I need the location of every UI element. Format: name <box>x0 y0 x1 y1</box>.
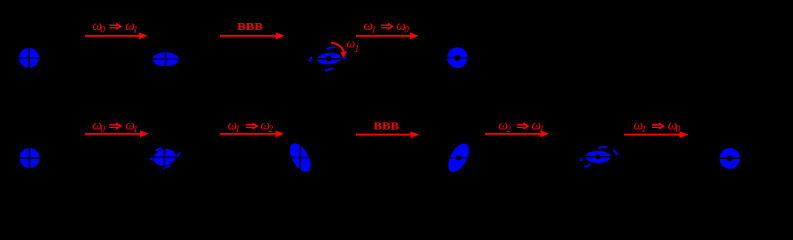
label omega1 => omega0 (top row, last) <box>364 18 410 35</box>
state B3: steeply rotated ellipse with cross <box>285 140 314 175</box>
state B5: rotating ellipse with dashed outline, line and dot <box>581 147 616 167</box>
arrow T-A2 (BBB protocol) <box>220 32 285 39</box>
state T3: rotating ellipse with dashed outline <box>310 47 345 70</box>
arrow B-A1 (omega0 to omega1) <box>85 130 149 137</box>
svg-text:BBB: BBB <box>237 22 263 33</box>
state B2: slightly rotated ellipse with dashes and cross <box>150 147 180 168</box>
state B6: final circle with line and dot <box>717 148 743 169</box>
label omega1 => omega0 (bottom row, last) <box>634 117 681 134</box>
state T2: squeezed horizontal ellipse with cross <box>149 50 183 69</box>
state B4: steep ellipse with line and dot <box>444 140 473 175</box>
label omega2 => omega1 (bottom row) <box>499 117 545 134</box>
arrow B-A4 (omega2 to omega1) <box>485 130 549 137</box>
arrow T-A1 (omega0 to omega1) <box>85 32 148 39</box>
label omega0 => omega1 (top row, first) <box>93 18 138 35</box>
arrow B-A5 (omega1 to omega0) <box>624 131 688 138</box>
arrow B-A3 (BBB protocol) <box>356 131 419 138</box>
rotation arc with arrowhead near T3 <box>331 43 347 59</box>
state T1: ground-state circle with cross <box>17 45 42 70</box>
label omega1 => omega2 (bottom row) <box>228 117 274 134</box>
state T4: final circle with line and dot <box>445 47 471 68</box>
arrow B-A2 (omega1 to omega2) <box>220 130 284 137</box>
state B1: ground-state circle with cross <box>17 146 42 171</box>
svg-text:BBB: BBB <box>374 121 400 132</box>
label omega0 => omega1 (bottom row, first) <box>93 117 138 134</box>
arrow T-A3 (omega1 to omega0) <box>356 32 419 39</box>
